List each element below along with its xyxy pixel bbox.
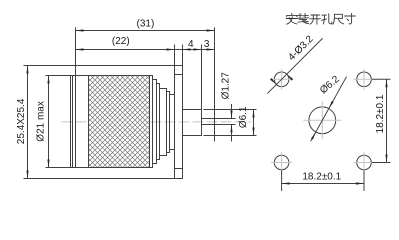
svg-text:Ø1.27: Ø1.27 bbox=[220, 72, 231, 100]
svg-text:(22): (22) bbox=[112, 36, 130, 47]
svg-text:Ø21 max: Ø21 max bbox=[35, 101, 46, 142]
svg-text:18.2±0.1: 18.2±0.1 bbox=[302, 171, 341, 182]
svg-text:25.4X25.4: 25.4X25.4 bbox=[16, 98, 27, 144]
svg-text:3: 3 bbox=[204, 39, 210, 50]
svg-text:18.2±0.1: 18.2±0.1 bbox=[375, 94, 386, 133]
svg-text:(31): (31) bbox=[137, 19, 155, 30]
svg-text:Ø6.1: Ø6.1 bbox=[238, 106, 249, 128]
svg-text:4: 4 bbox=[188, 39, 194, 50]
